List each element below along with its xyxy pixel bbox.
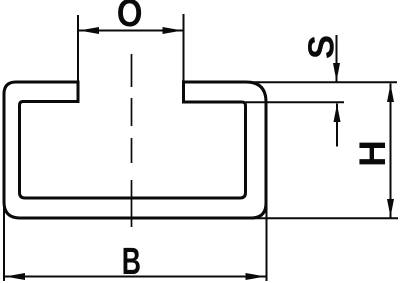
extension line top right (profile top edge extended) [240,81,397,83]
svg-text:B: B [122,239,141,282]
centerline [131,54,133,227]
dimension H arrow down [387,199,394,217]
svg-text:H: H [352,140,393,167]
dimension O extension line right [183,14,185,82]
svg-text:O: O [117,0,143,35]
svg-text:S: S [301,35,342,59]
C-profile outline [4,82,266,218]
dimension S line upper [336,35,338,82]
dimension H line [390,84,392,218]
dimension B extension line left [3,200,5,281]
dimension S arrow up [334,104,341,122]
dimension B extension line right [266,203,268,281]
dimension B arrow right [246,273,266,280]
dimension B arrow left [5,273,25,280]
extension line bottom right (profile bottom edge extended) [249,217,398,219]
dimension S line lower [336,104,338,147]
label B [122,239,141,282]
dimension B line [4,276,267,278]
dimension O arrow right [163,27,183,34]
dimension O line [78,30,184,32]
label O [117,0,143,35]
extension line inner surface right [246,101,345,103]
dimension H arrow up [387,84,394,102]
dimension O extension line left [77,15,79,82]
dimension S arrow down [333,63,340,82]
dimension O arrow left [79,27,99,34]
